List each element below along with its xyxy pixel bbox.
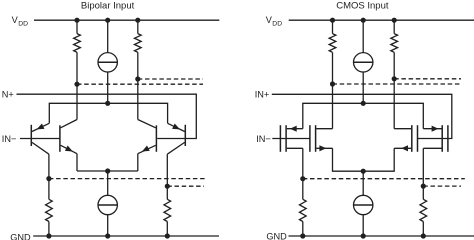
junction: VDD rail / R5 [330,18,335,23]
wire: VDD rail (bipolar) [34,19,219,21]
junction: VDD rail / I1 [105,18,110,23]
title: Bipolar Input [81,1,135,12]
dashed net A (from R1 vertical) [77,83,203,85]
svg-text:IN+: IN+ [255,90,270,100]
svg-text:DD: DD [272,20,282,27]
dashed net B2 (from R6 vertical) [394,78,461,80]
junction: GND rail / R8 [421,233,426,238]
junction: dashed net A / R1 vertical [74,82,79,87]
wire: IN+ to M3/M4 gates [272,94,452,138]
transistor Q3 (NPN, base IN+) [138,120,157,154]
wire: Q1 collector down [48,154,50,178]
dashed net A2 (from R5 vertical) [333,83,460,85]
resistor R4 (Q4 collector to GND) [164,186,171,236]
junction: dashed net B2 / R6 vertical [392,76,397,81]
net label VDD (bipolar) [12,15,29,27]
svg-text:N+: N+ [2,90,14,100]
junction: dashed net E / Q4 collector [165,184,170,189]
net label N+ (IN+) [2,90,14,100]
junction: NMOS tail / I4 [361,169,366,174]
junction: GND rail / I4 [361,233,366,238]
net label IN+ (CMOS) [255,90,270,100]
wire: IN− to M1/M2 gates [272,138,310,140]
junction: I3 / PMOS source rail [361,101,366,106]
current source I1 (top tail source) [98,20,117,103]
junction: VDD rail / I3 [361,18,366,23]
resistor R3 (Q1 collector to GND) [46,179,53,236]
resistor R6 (VDD to M3 drain) [391,20,398,129]
wire: PNP emitter rail (I1 to Q1/Q4 emitters) [49,103,167,123]
junction: GND rail / R4 [165,233,170,238]
current source I3 (top tail source) [354,20,373,103]
junction: dashed net E2 / M4 drain [421,184,426,189]
junction: GND rail / I2 [105,233,110,238]
wire: NMOS tail rail (M2/M3 sources) [333,148,395,171]
junction: I1 / PNP emitter rail [105,101,110,106]
wire: VDD rail (CMOS) [289,19,474,21]
junction: dashed net B / R2 vertical [135,76,140,81]
transistor Q2 (NPN, base IN−) [60,120,77,154]
wire: M1 drain down [302,148,304,178]
svg-text:GND: GND [10,232,31,240]
wire: IN− to Q1/Q2 bases [20,138,60,140]
net label IN− (CMOS) [256,134,271,144]
wire: IN+ to Q3/Q4 bases [17,94,197,138]
dashed net E (from Q4 collector) [167,185,204,187]
title: CMOS Input [336,1,389,12]
resistor R2 (VDD to Q3 collector) [134,20,141,119]
transistor M3 (NMOS, gate IN+) [394,125,417,152]
junction: VDD rail / R6 [392,18,397,23]
dashed net D2 (from M1 drain) [303,178,465,180]
resistor R1 (VDD to Q2 collector) [74,20,81,119]
junction: dashed net A2 / R5 vertical [330,81,335,86]
transistor M4 (PMOS, gate IN+) [423,125,448,152]
current source I4 (bottom tail source) [354,171,373,236]
svg-text:Bipolar Input: Bipolar Input [81,1,135,12]
resistor R7 (M1 drain to GND) [299,179,306,236]
resistor R8 (M4 drain to GND) [420,186,427,236]
wire: Q2 emitter to NPN tail [76,154,78,171]
resistor R5 (VDD to M2 drain) [329,20,336,129]
current source I2 (bottom tail source) [98,171,117,236]
junction: VDD rail / R2 [135,18,140,23]
transistor M1 (PMOS, gate IN−) [280,125,302,152]
svg-text:GND: GND [266,232,287,240]
wire: GND rail (bipolar) [33,235,219,237]
transistor Q4 (PNP, base IN+) [167,123,185,154]
svg-text:IN−: IN− [2,134,17,144]
dashed net D (from Q1 collector) [49,178,207,180]
transistor M2 (NMOS, gate IN−) [310,125,333,152]
net label GND (bipolar) [10,232,31,240]
wire: Q3 emitter to NPN tail [137,154,139,171]
junction: GND rail / R7 [300,233,305,238]
junction: NPN tail / I2 [105,168,110,173]
junction: dashed net D / Q1 collector [46,176,51,181]
svg-text:IN−: IN− [256,134,271,144]
transistor Q1 (PNP, base IN−) [31,123,49,154]
wire: GND rail (CMOS) [289,235,474,237]
junction: GND rail / R3 [46,233,51,238]
wire: NPN tail rail [77,170,138,172]
wire: M4 drain down [422,148,424,186]
junction: VDD rail / R1 [74,18,79,23]
dashed net B (from R2 vertical) [138,78,203,80]
dashed net E2 (from M4 drain) [423,185,461,187]
net label GND (CMOS) [266,232,287,240]
net label IN− (bipolar) [2,134,17,144]
junction: dashed net D2 / M1 drain [300,176,305,181]
svg-text:CMOS Input: CMOS Input [336,1,389,12]
wire: Q4 collector down [166,154,168,186]
svg-text:DD: DD [18,20,28,27]
wire: PMOS source rail (I3 to M1/M4 sources) [303,103,424,128]
net label VDD (CMOS) [266,15,283,27]
